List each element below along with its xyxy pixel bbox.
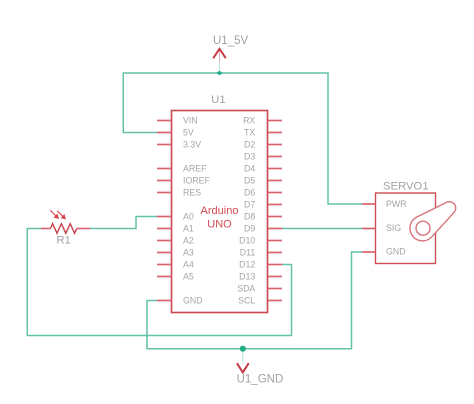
svg-text:A0: A0 xyxy=(183,212,194,222)
svg-text:IOREF: IOREF xyxy=(183,176,211,186)
wire SIG net: D9 to servo SIG xyxy=(282,228,362,230)
svg-text:D7: D7 xyxy=(244,200,255,210)
connector SERVO1 body xyxy=(376,193,436,264)
svg-text:D2: D2 xyxy=(244,140,255,150)
U1 left pin labels xyxy=(183,116,211,306)
svg-text:SDA: SDA xyxy=(237,284,255,294)
svg-text:RX: RX xyxy=(243,116,255,126)
svg-text:VIN: VIN xyxy=(183,116,198,126)
svg-text:D9: D9 xyxy=(244,224,255,234)
power flag U1_5V xyxy=(213,35,248,73)
SERVO1 horn xyxy=(410,202,456,241)
svg-text:R1: R1 xyxy=(56,235,70,247)
ground flag U1_GND xyxy=(237,349,284,386)
svg-text:GND: GND xyxy=(183,296,203,306)
svg-text:D8: D8 xyxy=(244,212,255,222)
svg-text:D5: D5 xyxy=(244,176,255,186)
svg-text:SIG: SIG xyxy=(386,223,401,233)
svg-text:A2: A2 xyxy=(183,236,194,246)
svg-text:5V: 5V xyxy=(183,128,194,138)
wire GND net: U1 GND pin to bottom rail to servo GND xyxy=(147,252,362,349)
svg-text:GND: GND xyxy=(386,247,406,257)
U1 right pin labels xyxy=(237,116,255,306)
wire 5V net: 5V pin to top rail to servo PWR xyxy=(123,73,362,204)
U1 left pin stubs xyxy=(157,121,172,301)
svg-text:TX: TX xyxy=(244,128,255,138)
SERVO1 pin stubs xyxy=(362,204,376,252)
svg-text:D13: D13 xyxy=(239,272,255,282)
svg-text:UNO: UNO xyxy=(207,218,232,230)
svg-text:D12: D12 xyxy=(239,260,255,270)
resistor R1 (photoresistor) xyxy=(41,224,90,234)
svg-text:U1_5V: U1_5V xyxy=(213,35,248,47)
svg-text:A1: A1 xyxy=(183,224,194,234)
svg-text:A5: A5 xyxy=(183,272,194,282)
wire R1 left to D12 net xyxy=(27,229,291,336)
svg-text:A4: A4 xyxy=(183,260,194,270)
svg-text:RES: RES xyxy=(183,188,201,198)
U1 right pin stubs xyxy=(268,121,283,301)
svg-text:D6: D6 xyxy=(244,188,255,198)
svg-text:SCL: SCL xyxy=(238,296,255,306)
junction (dot) on GND rail xyxy=(240,346,246,352)
svg-text:D4: D4 xyxy=(244,164,255,174)
svg-text:A3: A3 xyxy=(183,248,194,258)
R1 light arrows xyxy=(50,210,65,218)
IC U1 Arduino UNO body xyxy=(172,111,268,313)
svg-text:U1_GND: U1_GND xyxy=(237,374,284,386)
svg-text:3.3V: 3.3V xyxy=(183,140,201,150)
svg-text:AREF: AREF xyxy=(183,164,207,174)
wire A0 net: R1 right lead to A0 pin xyxy=(90,217,157,229)
junction (diamond) on 5V rail xyxy=(216,71,223,76)
svg-text:D3: D3 xyxy=(244,152,255,162)
svg-text:SERVO1: SERVO1 xyxy=(383,181,429,193)
svg-text:Arduino: Arduino xyxy=(201,205,239,217)
svg-text:D10: D10 xyxy=(239,236,255,246)
svg-text:D11: D11 xyxy=(240,248,256,258)
svg-text:PWR: PWR xyxy=(386,199,407,209)
SERVO1 pin labels xyxy=(386,199,407,257)
svg-text:U1: U1 xyxy=(211,94,225,106)
